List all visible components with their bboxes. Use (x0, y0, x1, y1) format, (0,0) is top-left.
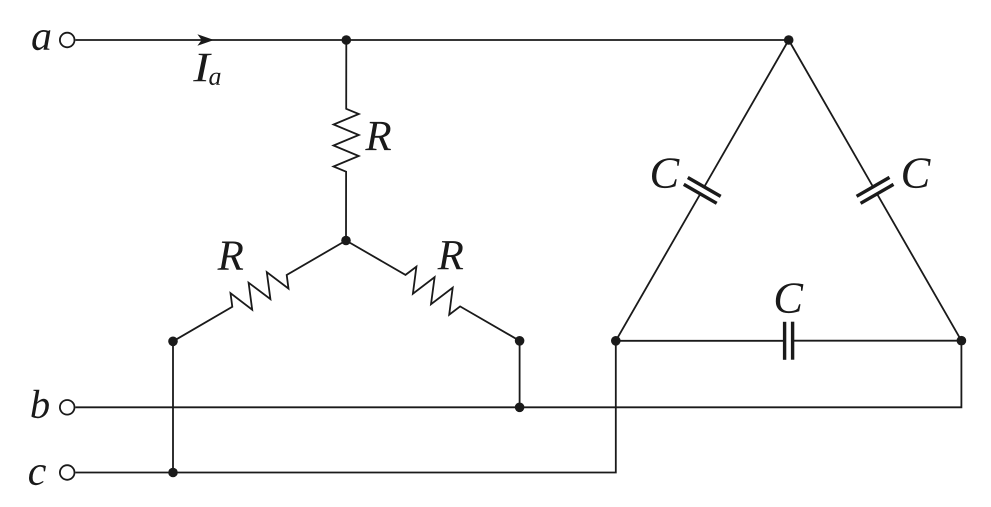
node dot delta apex (784, 35, 794, 45)
node dot c junction (168, 468, 178, 478)
wire right wye down to b line (519, 341, 521, 408)
label I of I_a (193, 54, 212, 82)
resistor R3 (right wye) (346, 241, 520, 341)
label C1 (652, 158, 680, 188)
node dot wye right (515, 336, 525, 346)
label C3 (776, 283, 804, 313)
terminal a (60, 33, 75, 48)
terminal b (60, 400, 75, 415)
capacitor C2 wires (delta right side) (789, 40, 873, 187)
label R3 (437, 241, 463, 269)
node dot wye left (168, 337, 178, 347)
node dot delta bottom left (611, 336, 621, 346)
label R2 (217, 242, 243, 270)
capacitor C1 wires (delta left side) (616, 194, 701, 341)
wire a top line (75, 39, 788, 41)
label R1 (365, 122, 391, 150)
terminal c (60, 465, 75, 480)
node dot wye center (341, 236, 351, 246)
wire c line and delta left vertical (75, 341, 615, 473)
label b (31, 390, 49, 419)
wire left wye down to c line (172, 341, 174, 472)
resistor R2 (left wye) (173, 241, 346, 342)
capacitor C3 plates (783, 322, 786, 360)
wire b line and delta right vertical (75, 341, 961, 408)
arrow I_a (197, 34, 214, 46)
capacitor C2 plates (857, 177, 890, 196)
label C2 (903, 158, 931, 188)
label c (29, 465, 46, 485)
resistor R1 (vertical) (334, 40, 359, 241)
node dot delta bottom right (957, 336, 967, 346)
capacitor C3 wires (delta bottom) (616, 340, 785, 342)
label a (32, 30, 50, 50)
label subscript a of I_a (209, 73, 220, 86)
node dot top junction (342, 35, 352, 45)
node dot b junction (515, 403, 525, 413)
capacitor C1 plates (684, 184, 717, 203)
